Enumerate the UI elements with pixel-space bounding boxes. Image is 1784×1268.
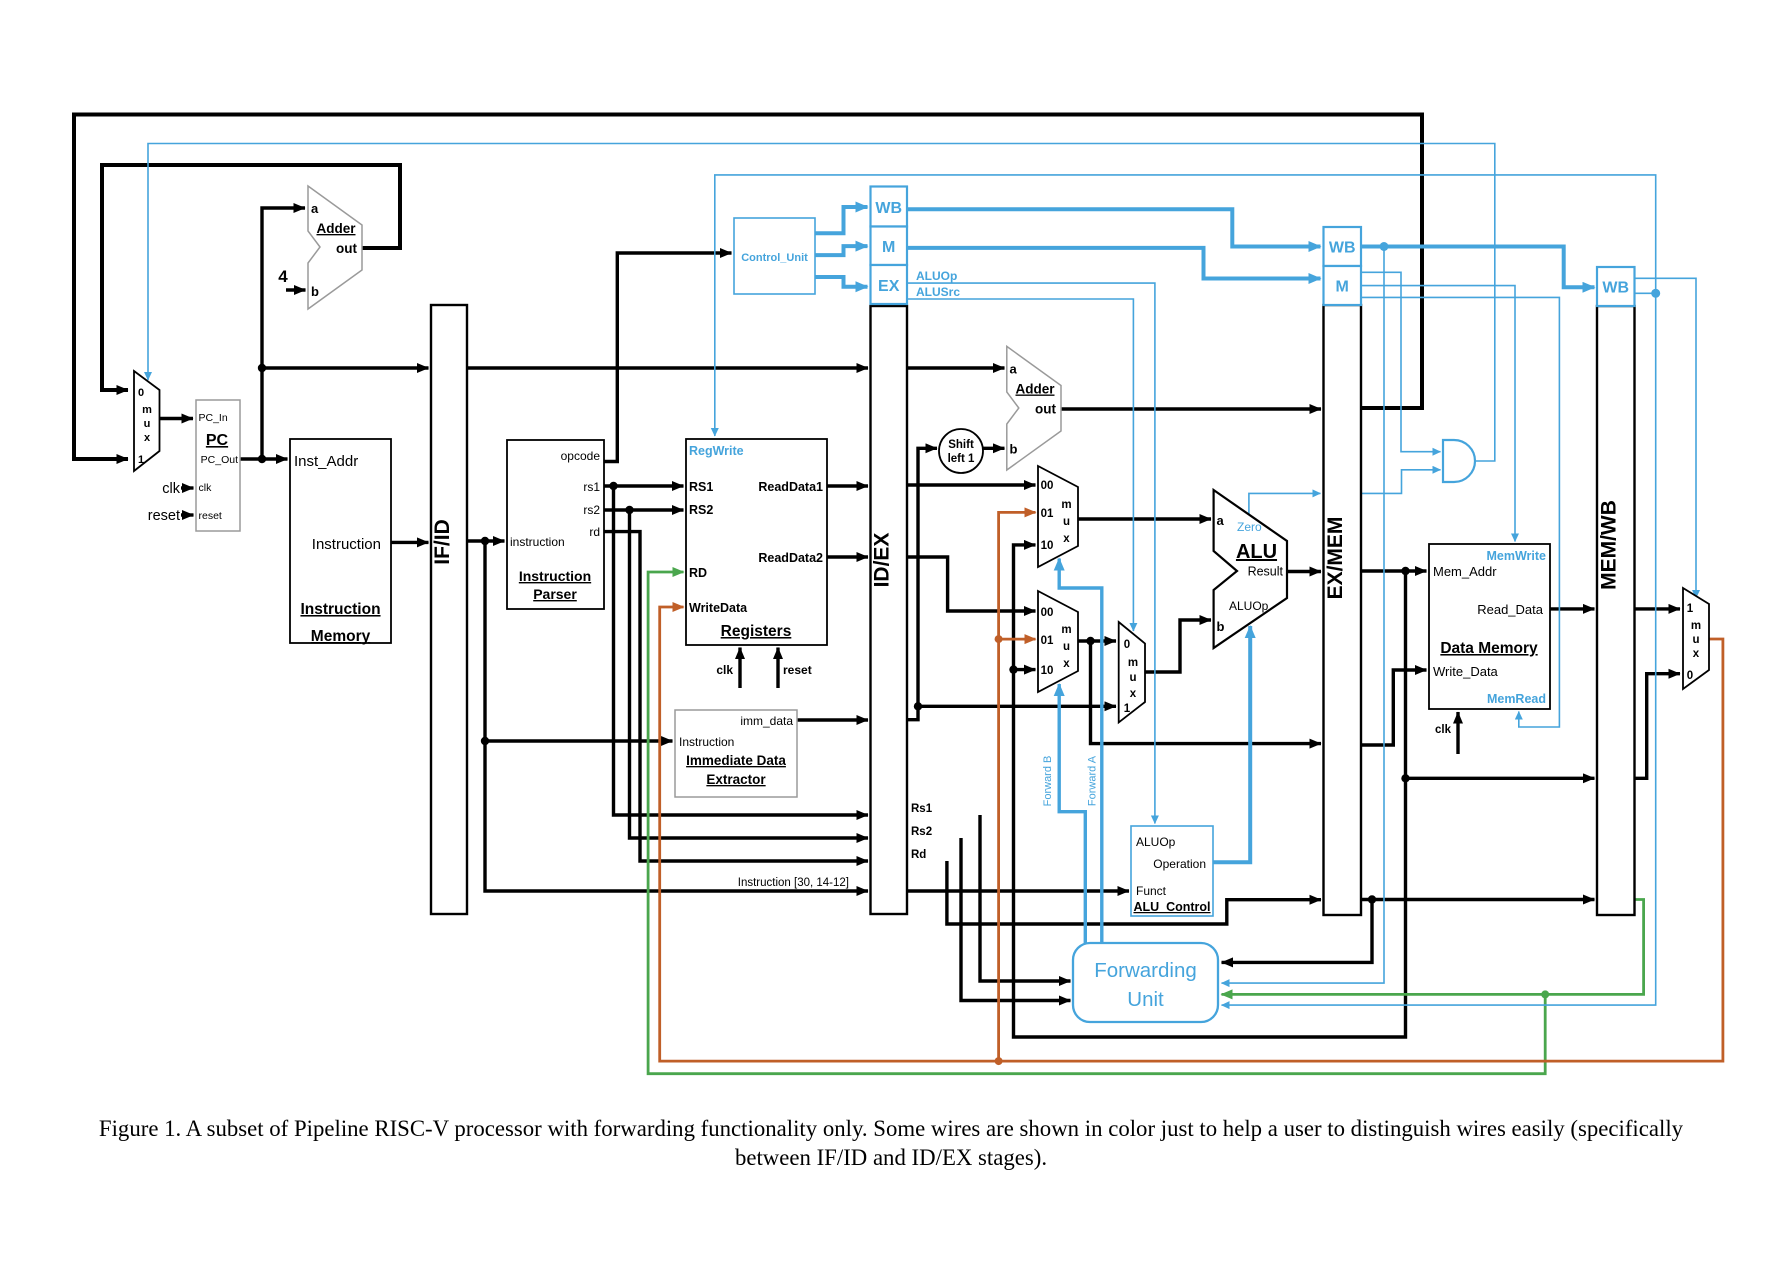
svg-text:ALUOp: ALUOp — [1136, 835, 1176, 849]
svg-text:Instruction: Instruction — [679, 735, 734, 749]
svg-text:IF/ID: IF/ID — [431, 519, 454, 565]
wire: ReadData1 ID/EX to forward mux A 00 — [907, 483, 1036, 486]
wire: ID/EX PC to Adder2 a — [907, 366, 1005, 369]
ALUSrc mux C — [1119, 622, 1145, 722]
svg-text:imm_data: imm_data — [740, 714, 793, 728]
svg-text:Instruction [30, 14-12]: Instruction [30, 14-12] — [738, 877, 849, 889]
EX/MEM pipeline register — [1324, 305, 1362, 915]
wire: MEM/WB WB to result mux select — [1635, 278, 1697, 598]
label: external reset — [148, 508, 180, 524]
svg-text:Forwarding: Forwarding — [1094, 959, 1197, 982]
Adder2 (branch target) — [1007, 346, 1061, 470]
svg-text:EX/MEM: EX/MEM — [1324, 517, 1347, 600]
MEM/WB WB box — [1597, 267, 1635, 306]
svg-text:a: a — [1010, 362, 1018, 377]
wire: M signals ID/EX to EX/MEM — [907, 248, 1321, 279]
wire: rs2 to RS2 and down to ID/EX Rs2 — [604, 510, 868, 838]
wire: clk into PC — [181, 486, 194, 489]
svg-text:instruction: instruction — [510, 535, 565, 549]
svg-text:M: M — [1336, 279, 1349, 296]
svg-text:rs2: rs2 — [583, 503, 600, 517]
svg-text:Read_Data: Read_Data — [1477, 602, 1544, 617]
svg-text:u: u — [1063, 641, 1070, 653]
wire: Rs2 ID/EX to Forwarding Unit — [961, 838, 1071, 1001]
svg-text:10: 10 — [1041, 665, 1054, 677]
wire: PC mux out to PC_In — [160, 417, 193, 420]
svg-text:1: 1 — [1687, 603, 1694, 615]
junction: rs2 node — [625, 506, 633, 514]
MEM/WB pipeline register — [1597, 306, 1635, 915]
svg-text:x: x — [1130, 688, 1137, 700]
junction: orange write-back nodes — [995, 635, 1003, 1065]
svg-text:m: m — [1061, 499, 1071, 511]
svg-text:ReadData2: ReadData2 — [758, 551, 823, 565]
svg-text:ALUOp: ALUOp — [916, 269, 957, 283]
svg-text:x: x — [1693, 648, 1700, 660]
wire: reset into Registers — [776, 648, 779, 689]
svg-text:u: u — [1692, 634, 1699, 646]
Data Memory block — [1429, 544, 1550, 709]
svg-text:ID/EX: ID/EX — [871, 533, 894, 588]
wire: WB signals ID/EX to EX/MEM — [907, 209, 1321, 246]
svg-text:PC_Out: PC_Out — [201, 454, 238, 466]
wire: instruction IF/ID to Instruction Parser — [467, 539, 505, 542]
svg-text:0: 0 — [1124, 639, 1130, 651]
ID/EX M box — [871, 227, 908, 266]
wire: green Rd write-back to Registers RD — [648, 572, 1545, 1074]
junction: EX/MEM result forward node — [1009, 567, 1409, 783]
svg-text:x: x — [1063, 533, 1070, 545]
wire: forward mux B out to mux C 0, and Write_Data into EX/MEM — [1078, 641, 1321, 744]
wire: Rd EX/MEM to MEM/WB — [1361, 898, 1595, 901]
Instruction Parser block — [507, 440, 604, 609]
svg-text:a: a — [1217, 513, 1225, 528]
label: external clk — [162, 481, 180, 497]
Immediate Data Extractor block — [675, 710, 797, 797]
wire: reset into PC — [181, 513, 194, 516]
wire: Rs1 ID/EX to Forwarding Unit — [980, 815, 1071, 981]
label: Data Memory clk — [1435, 724, 1452, 736]
svg-text:Adder: Adder — [316, 221, 356, 236]
svg-text:Shift: Shift — [948, 439, 974, 451]
junction: rs1 node — [609, 482, 617, 490]
svg-text:M: M — [882, 239, 895, 256]
wire: ReadData2 ID/EX to forward mux B 00 — [907, 557, 1036, 611]
svg-text:clk: clk — [716, 663, 733, 677]
svg-text:Parser: Parser — [533, 586, 577, 602]
svg-text:clk: clk — [162, 481, 180, 497]
PC block — [196, 400, 240, 531]
svg-text:rs1: rs1 — [583, 480, 600, 494]
svg-text:ALUOp: ALUOp — [1229, 599, 1269, 613]
wire: ALU Result into EX/MEM — [1287, 570, 1321, 573]
svg-text:reset: reset — [199, 510, 222, 522]
svg-text:WriteData: WriteData — [689, 601, 748, 615]
svg-text:Write_Data: Write_Data — [1433, 664, 1499, 679]
wire: opcode to Control_Unit — [604, 253, 732, 462]
wire: ReadData1 into ID/EX — [827, 484, 868, 487]
svg-text:Inst_Addr: Inst_Addr — [294, 453, 358, 470]
wire: Zero flag ALU into EX/MEM — [1249, 493, 1321, 515]
svg-text:opcode: opcode — [561, 449, 601, 463]
svg-text:00: 00 — [1041, 607, 1054, 619]
label: Rs1 at ID/EX — [911, 803, 933, 815]
svg-text:out: out — [1035, 402, 1056, 417]
wire: ALUSrc EX to mux C select — [907, 299, 1133, 631]
svg-text:m: m — [1128, 657, 1138, 669]
wire: EX/MEM Rd down to Forwarding Unit — [1222, 900, 1373, 963]
wire: Rd ID/EX under ALU_Control into EX/MEM — [947, 861, 1321, 924]
label: Forward B — [1042, 756, 1054, 807]
junction: instruction node — [481, 537, 489, 745]
wire: PCSrc from AND gate to PC mux select — [148, 144, 1495, 462]
svg-text:x: x — [144, 432, 151, 444]
svg-text:00: 00 — [1041, 480, 1054, 492]
Registers block — [686, 439, 827, 645]
svg-text:a: a — [311, 201, 319, 216]
svg-text:0: 0 — [1687, 670, 1693, 682]
result mux D — [1683, 588, 1709, 689]
svg-text:RegWrite: RegWrite — [689, 444, 744, 458]
svg-text:b: b — [311, 284, 319, 299]
svg-text:MemRead: MemRead — [1487, 692, 1546, 706]
svg-text:between IF/ID and ID/EX stages: between IF/ID and ID/EX stages). — [735, 1145, 1047, 1170]
svg-text:u: u — [144, 418, 151, 430]
forward mux A — [1038, 466, 1078, 567]
wire: rs1 to RS1 and down to ID/EX Rs1 — [604, 486, 868, 815]
caption line 1 — [99, 1116, 1684, 1141]
svg-text:reset: reset — [148, 508, 180, 524]
svg-text:ReadData1: ReadData1 — [758, 480, 823, 494]
wire: EX/MEM ALU result down, to MEM/WB and forwarding muxes 10 — [1014, 545, 1595, 1037]
svg-text:left 1: left 1 — [948, 453, 975, 465]
svg-text:01: 01 — [1041, 635, 1054, 647]
wire: instruction branch to Immediate Data Extractor and Instruction[30,14-12] into ID/EX — [485, 541, 868, 891]
IF/ID pipeline register — [431, 305, 467, 914]
svg-text:ALU: ALU — [1236, 541, 1277, 563]
svg-text:RS2: RS2 — [689, 503, 713, 517]
svg-text:out: out — [336, 241, 357, 256]
EX/MEM M box — [1324, 266, 1362, 305]
wire: PC_Out to Instruction Memory Inst_Addr — [240, 457, 288, 460]
svg-text:WB: WB — [1602, 280, 1629, 297]
svg-text:Immediate Data: Immediate Data — [686, 753, 786, 768]
svg-text:MEM/WB: MEM/WB — [1598, 500, 1621, 590]
ID/EX EX box — [871, 265, 908, 304]
wire: MEM/WB RegWrite down to Forwarding Unit — [1222, 293, 1656, 1005]
svg-text:Rd: Rd — [911, 849, 926, 861]
svg-text:PC_In: PC_In — [199, 412, 228, 424]
ID/EX WB box — [871, 187, 908, 227]
wire: WB signals EX/MEM to MEM/WB — [1361, 247, 1595, 288]
wire: orange forwarded write-back to mux A 01 — [999, 512, 1036, 1061]
label: Instruction [30, 14-12] — [738, 877, 849, 889]
svg-text:Adder: Adder — [1015, 382, 1055, 397]
wire: ReadData2 into ID/EX — [827, 555, 868, 558]
wire: orange branch to mux B 01 — [999, 638, 1036, 641]
svg-text:reset: reset — [783, 663, 812, 677]
Forwarding Unit block — [1073, 943, 1218, 1022]
svg-text:WB: WB — [1329, 240, 1356, 257]
AND gate (branch) — [1443, 440, 1475, 482]
label: Rs2 at ID/EX — [911, 826, 932, 838]
wire: PC value IF/ID to ID/EX — [467, 366, 868, 369]
svg-text:Operation: Operation — [1153, 857, 1206, 871]
svg-text:Mem_Addr: Mem_Addr — [1433, 564, 1497, 579]
svg-text:0: 0 — [138, 387, 144, 399]
wire: clk into Data Memory — [1456, 712, 1459, 754]
svg-text:u: u — [1129, 672, 1136, 684]
wire: Instruction[30,14-12] to ALU_Control Funct — [907, 889, 1129, 892]
Shift left 1 circle — [939, 429, 983, 473]
wire: Read_Data into MEM/WB — [1550, 607, 1595, 610]
svg-text:Forward A: Forward A — [1087, 755, 1099, 806]
svg-text:Zero: Zero — [1237, 520, 1262, 534]
wire: Zero flag EX/MEM to AND gate — [1361, 470, 1441, 494]
label: Forward A — [1087, 755, 1099, 806]
svg-text:rd: rd — [589, 525, 600, 539]
svg-text:Instruction: Instruction — [312, 536, 381, 553]
junction: blue WB nodes — [1380, 242, 1661, 298]
wire: clk into Registers — [738, 648, 741, 689]
wire: PC_Out up to Adder1 a — [262, 208, 305, 459]
svg-text:m: m — [142, 404, 152, 416]
EX/MEM WB box — [1324, 227, 1362, 266]
svg-text:RS1: RS1 — [689, 480, 713, 494]
svg-text:10: 10 — [1041, 540, 1054, 552]
svg-text:MemWrite: MemWrite — [1486, 549, 1546, 563]
svg-text:Unit: Unit — [1127, 988, 1164, 1011]
svg-text:4: 4 — [278, 267, 288, 286]
wire: rd down to ID/EX Rd — [604, 532, 868, 861]
svg-text:Forward B: Forward B — [1042, 756, 1054, 807]
Control_Unit block — [734, 218, 815, 294]
svg-text:EX: EX — [878, 278, 900, 295]
Adder1 (PC+4) — [308, 186, 362, 309]
svg-text:m: m — [1061, 624, 1071, 636]
label: Registers reset — [783, 663, 812, 677]
wire: Control_Unit to ID/EX WB — [815, 207, 868, 233]
svg-text:Rs2: Rs2 — [911, 826, 932, 838]
wire: MemWrite EX/MEM M to Data Memory — [1361, 286, 1515, 542]
wire: PC+4 loop (Adder1 out to PC mux 0) — [102, 165, 400, 390]
label: Registers clk — [716, 663, 733, 677]
svg-text:RD: RD — [689, 566, 707, 580]
wire: ALUOp EX to ALU_Control — [907, 283, 1155, 823]
label: ALUSrc signal — [916, 285, 960, 299]
svg-text:Rs1: Rs1 — [911, 803, 933, 815]
wire: Control_Unit to ID/EX EX — [815, 277, 868, 287]
forward mux B — [1038, 591, 1078, 692]
junction: EX/MEM Rd node — [1368, 895, 1376, 903]
svg-text:clk: clk — [199, 482, 213, 494]
svg-text:Registers: Registers — [721, 623, 792, 640]
svg-text:Funct: Funct — [1136, 884, 1167, 898]
wire: Instruction Memory out to IF/ID — [391, 541, 429, 544]
wire: Operation ALU_Control to ALU — [1213, 626, 1250, 862]
label: constant 4 — [278, 267, 288, 286]
wire: forward mux A out to ALU a — [1078, 517, 1211, 520]
wire: MemRead EX/MEM M to Data Memory — [1361, 297, 1559, 727]
svg-text:Result: Result — [1248, 565, 1284, 579]
wire: green Rd write-back from MEM/WB to Forwarding Unit — [1222, 900, 1644, 995]
svg-text:ALU_Control: ALU_Control — [1133, 900, 1210, 914]
svg-text:Data Memory: Data Memory — [1440, 640, 1538, 657]
ALU_Control block — [1131, 826, 1213, 916]
wire: RegWrite from MEM/WB WB back to Registers — [715, 175, 1656, 436]
svg-text:ALUSrc: ALUSrc — [916, 285, 960, 299]
wire: constant 4 into Adder1 b — [286, 288, 306, 291]
svg-text:1: 1 — [1124, 703, 1131, 715]
wire: ALU result MEM/WB to result mux input 0 — [1635, 674, 1681, 779]
caption line 2 — [735, 1145, 1047, 1170]
wire: imm_data into ID/EX — [797, 718, 868, 721]
wire: EX/MEM write data to Data Memory Write_Data — [1361, 670, 1427, 745]
junction: PC_Out node — [258, 364, 266, 463]
svg-text:Control_Unit: Control_Unit — [741, 252, 808, 264]
wire: Read_Data MEM/WB to result mux input 1 — [1635, 607, 1681, 610]
ID/EX pipeline register — [871, 306, 908, 914]
svg-text:Memory: Memory — [311, 628, 371, 645]
ALU — [1214, 490, 1287, 648]
svg-text:u: u — [1063, 516, 1070, 528]
svg-text:b: b — [1217, 619, 1225, 634]
wire: imm ID/EX to Shift left 1 and mux C input 1 — [907, 448, 1116, 719]
junction: green write-back node — [1541, 990, 1549, 998]
wire: Forward A from Forwarding Unit to mux A select — [1059, 559, 1102, 944]
wire: Forward B from Forwarding Unit to mux B select — [1059, 684, 1085, 943]
svg-text:PC: PC — [206, 432, 229, 449]
svg-text:Figure 1. A subset of Pipeline: Figure 1. A subset of Pipeline RISC-V pr… — [99, 1116, 1684, 1141]
label: Rd at ID/EX — [911, 849, 926, 861]
wire: EX/MEM ALU result to Data Memory Mem_Addr — [1361, 569, 1427, 572]
svg-text:b: b — [1010, 442, 1018, 457]
wire: Shift left 1 out to Adder2 b — [983, 447, 1005, 450]
svg-text:Instruction: Instruction — [300, 601, 380, 618]
junction: mux B out node — [1086, 637, 1094, 645]
svg-text:Instruction: Instruction — [519, 568, 591, 584]
Instruction Memory block — [290, 439, 391, 645]
wire: EX/MEM WB signal down to Forwarding Unit — [1222, 247, 1385, 984]
svg-text:m: m — [1691, 620, 1701, 632]
svg-text:WB: WB — [875, 200, 902, 217]
wire: PC value into IF/ID — [262, 366, 429, 369]
wire: orange write-back data from result mux to Registers WriteData — [660, 607, 1723, 1061]
svg-text:1: 1 — [138, 454, 144, 466]
wire: Branch signal EX/MEM M to AND gate — [1361, 272, 1441, 451]
PC source mux — [134, 371, 160, 471]
wire: mux C out to ALU b — [1145, 620, 1211, 672]
label: ALUOp signal — [916, 269, 957, 283]
wire: Adder2 out into EX/MEM — [1061, 407, 1321, 410]
svg-text:Extractor: Extractor — [706, 772, 766, 787]
svg-text:x: x — [1063, 658, 1070, 670]
junction: imm node — [914, 702, 922, 710]
wire: branch-target feedback loop (EX/MEM out to PC mux 1) — [74, 115, 1422, 460]
svg-text:01: 01 — [1041, 508, 1054, 520]
wire: Control_Unit to ID/EX M — [815, 246, 868, 255]
svg-text:clk: clk — [1435, 724, 1452, 736]
